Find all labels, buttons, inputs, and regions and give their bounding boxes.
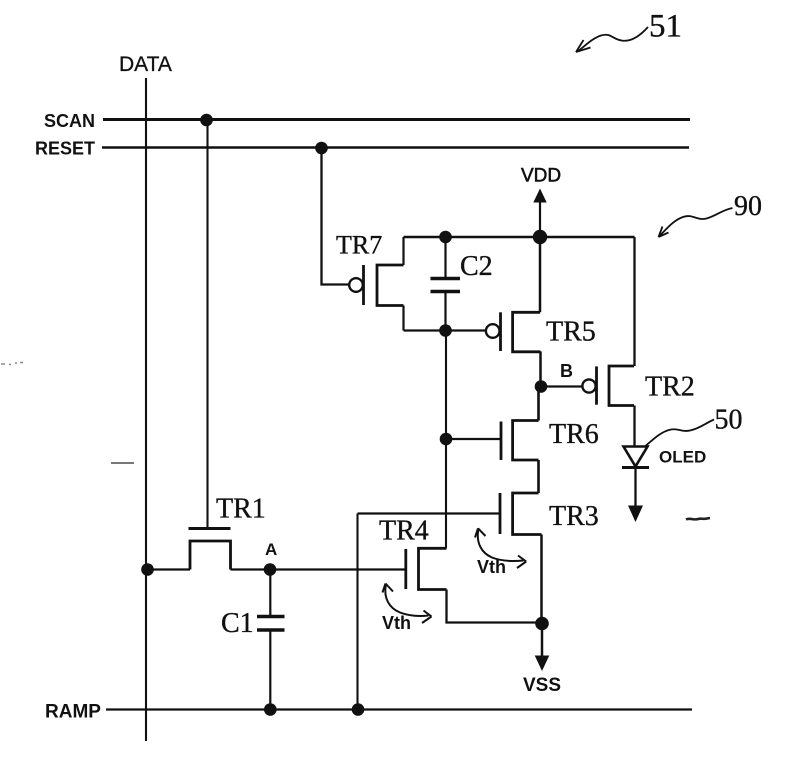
transistor TR2 (582, 366, 634, 406)
wire center column C2 node down to TR4 (445, 331, 447, 549)
transistor TR3 (358, 493, 542, 535)
svg-text:TR4: TR4 (379, 516, 429, 547)
transistor TR6 (446, 421, 539, 461)
junction dot on RESET (315, 142, 328, 155)
svg-text:Vth: Vth (382, 613, 411, 633)
svg-text:C2: C2 (460, 251, 493, 282)
svg-text:90: 90 (734, 191, 762, 222)
svg-text:VDD: VDD (521, 166, 561, 187)
leader arrow for 90 (659, 208, 733, 237)
transistor TR1 (189, 529, 231, 570)
wire node B to TR2 gate (541, 385, 583, 387)
svg-text:A: A (265, 540, 277, 559)
svg-text:RESET: RESET (35, 139, 95, 159)
wire TR1 to node A (231, 568, 271, 570)
wire node B to TR6 (537, 387, 540, 421)
svg-text:SCAN: SCAN (44, 111, 95, 131)
wire DATA to TR1 (148, 568, 191, 570)
svg-text:DATA: DATA (119, 53, 172, 76)
svg-text:51: 51 (649, 9, 682, 45)
svg-text:B: B (560, 361, 573, 381)
VDD arrow (533, 189, 546, 238)
junction dot VSS node (535, 617, 549, 631)
wire RESET horizontal line (102, 146, 689, 149)
wire RESET to TR7 gate (322, 148, 350, 285)
svg-text:TR1: TR1 (216, 494, 266, 525)
wire DATA vertical line (145, 78, 147, 741)
wire RAMP horizontal line (106, 708, 692, 710)
wire TR7 to TR5 gate (404, 329, 486, 331)
wire TR3 source to VSS node (540, 535, 543, 624)
wire TR5 to node B (539, 351, 542, 386)
Vth arrow at TR4 (383, 584, 432, 624)
wire VDD top rail (404, 236, 635, 238)
junction dot DATA at TR1 (141, 563, 154, 576)
svg-text:TR6: TR6 (549, 419, 599, 450)
junction dot top rail at C2 (439, 231, 452, 244)
wire TR2 to OLED (633, 406, 635, 447)
svg-text:TR3: TR3 (549, 501, 599, 532)
VSS arrow (535, 624, 550, 672)
svg-text:VSS: VSS (523, 675, 561, 696)
svg-text:TR5: TR5 (546, 317, 596, 348)
OLED cathode arrow to ground (628, 468, 643, 523)
transistor TR4 (406, 548, 447, 589)
junction dot on SCAN (200, 114, 213, 127)
leader line for 50 (646, 420, 715, 447)
transistor TR7 (349, 237, 403, 331)
wire TR3 gate down to RAMP (356, 514, 358, 710)
wire VDD rail down to TR2 (633, 237, 635, 366)
svg-text:TR2: TR2 (645, 372, 695, 403)
svg-text:OLED: OLED (659, 448, 706, 467)
junction dot C2 on TR5 gate wire (439, 324, 452, 337)
junction dot RAMP at TR3 gate wire (352, 703, 365, 716)
svg-text:50: 50 (715, 405, 743, 436)
svg-text:C1: C1 (221, 608, 254, 639)
svg-text:RAMP: RAMP (45, 702, 101, 723)
capacitor C2 (431, 237, 461, 331)
wire SCAN horizontal line (103, 118, 690, 121)
wire VDD rail to TR5 (539, 237, 542, 312)
junction dot top rail at VDD (533, 230, 547, 244)
node A junction dot (264, 563, 277, 576)
wire TR6 to TR3 (537, 460, 540, 493)
wire node A to TR4 gate (270, 568, 406, 570)
wire SCAN to TR1 gate (206, 121, 208, 529)
Vth arrow at TR3 (475, 528, 526, 568)
wire TR4 source to VSS node (447, 590, 543, 623)
svg-text:Vth: Vth (477, 557, 506, 577)
junction dot TR6 gate (440, 433, 453, 446)
capacitor C1 (257, 570, 285, 710)
transistor TR5 (486, 312, 541, 352)
leader arrow for 51 (576, 27, 648, 52)
svg-text:TR7: TR7 (336, 231, 382, 260)
junction dot RAMP at C1 (264, 703, 277, 716)
node B junction dot (535, 380, 548, 393)
diode OLED (622, 447, 649, 468)
